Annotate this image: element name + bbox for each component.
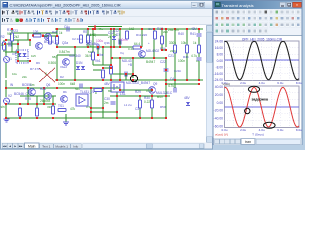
wire input series wire bbox=[5, 43, 18, 45]
capacitor C4 bbox=[197, 58, 202, 60]
svg-text:48V: 48V bbox=[191, 27, 198, 31]
wire top stub wire bbox=[88, 26, 122, 28]
wire lower col M bbox=[90, 88, 92, 118]
svg-text:R7 470: R7 470 bbox=[30, 67, 40, 71]
wire feedback lower wire bbox=[6, 103, 56, 105]
resistor R21 bbox=[110, 66, 113, 74]
resistor R17 bbox=[11, 33, 14, 41]
graph title text bbox=[242, 38, 283, 42]
annotation ellipse on peak bbox=[248, 86, 259, 92]
svg-text:8.00: 8.00 bbox=[217, 52, 224, 56]
svg-text:▶▶: ▶▶ bbox=[19, 145, 23, 148]
left toolbar row 1 bbox=[2, 10, 124, 14]
svg-text:(0.648): (0.648) bbox=[86, 33, 96, 37]
svg-text:◀◀: ◀◀ bbox=[3, 145, 7, 148]
wire bias res bottom bbox=[11, 41, 13, 52]
svg-text:1k5: 1k5 bbox=[31, 54, 36, 58]
svg-text:Models 1: Models 1 bbox=[55, 144, 68, 148]
wire col L seg2 bbox=[198, 37, 200, 45]
svg-text:V2: V2 bbox=[8, 94, 12, 98]
svg-text:MJL4302: MJL4302 bbox=[146, 49, 159, 53]
wire col L seg4 bbox=[198, 61, 200, 80]
wire col J upper bbox=[174, 29, 176, 45]
svg-text:▶: ▶ bbox=[14, 145, 16, 148]
right toolbar row 1 bbox=[215, 10, 301, 15]
capacitor C10 bbox=[9, 42, 11, 47]
wire col K upper bbox=[186, 29, 188, 45]
wire lower col P bbox=[151, 94, 153, 118]
svg-text:0.22: 0.22 bbox=[128, 47, 134, 51]
svg-text:C2 22u: C2 22u bbox=[72, 37, 82, 41]
ground GND2 bbox=[63, 122, 69, 125]
wire lower col R bbox=[139, 96, 141, 118]
bottom plot y axis labels bbox=[214, 85, 224, 129]
svg-text:+: + bbox=[148, 41, 150, 45]
svg-text:R11 220: R11 220 bbox=[136, 33, 147, 37]
svg-text:TS1: TS1 bbox=[58, 104, 64, 108]
right window close button bbox=[293, 2, 301, 7]
extra schematic labels 2 bbox=[12, 27, 200, 109]
left page tab bar bbox=[1, 143, 212, 149]
svg-text:234.0m: 234.0m bbox=[168, 28, 179, 32]
svg-text:Q3b: Q3b bbox=[104, 41, 110, 45]
svg-text:MJL4302_B4947: MJL4302_B4947 bbox=[126, 81, 150, 85]
svg-text:1k2: 1k2 bbox=[129, 27, 134, 31]
wire lower col N bbox=[102, 88, 104, 118]
resistor R7 bbox=[174, 45, 177, 53]
svg-text:16.00: 16.00 bbox=[215, 46, 223, 50]
svg-text:Vb1: Vb1 bbox=[95, 59, 101, 63]
svg-text:2.0u: 2.0u bbox=[240, 128, 246, 132]
svg-text:126: 126 bbox=[33, 30, 39, 34]
resistor R19 bbox=[87, 35, 90, 43]
wire stub drop bbox=[94, 27, 96, 30]
wire sense wire bbox=[162, 49, 166, 51]
svg-text:T (Secs): T (Secs) bbox=[252, 133, 264, 137]
transistor Q8 bbox=[149, 87, 156, 94]
right toolbar row 2 bbox=[215, 16, 301, 21]
wire col C bbox=[92, 29, 94, 65]
wire feedback tap bbox=[17, 40, 19, 52]
right page tab bar bbox=[214, 138, 302, 145]
svg-text:26k6x8: 26k6x8 bbox=[40, 99, 51, 103]
wire lower col O bbox=[116, 92, 118, 118]
right toolbar row 3 bbox=[215, 22, 301, 27]
wire col F lower bbox=[119, 58, 121, 80]
svg-text:BC546_C: BC546_C bbox=[14, 92, 29, 96]
resistor R9 bbox=[198, 45, 201, 53]
capacitor C7 bbox=[111, 102, 116, 104]
svg-text:0.5: 0.5 bbox=[86, 105, 91, 109]
resistor R20 bbox=[139, 100, 142, 108]
top plot y axis labels bbox=[214, 40, 224, 83]
wire lower stage wire bbox=[6, 87, 120, 89]
desktop background bbox=[0, 0, 305, 150]
capacitor C8 bbox=[97, 45, 99, 50]
wire col L seg3 bbox=[198, 53, 200, 57]
svg-text:20.00: 20.00 bbox=[215, 93, 223, 97]
wire zener col bbox=[113, 29, 115, 47]
wire edge col bbox=[3, 40, 5, 52]
svg-text:330: 330 bbox=[47, 105, 52, 109]
resistor R18 bbox=[3, 42, 6, 50]
svg-text:-8.00: -8.00 bbox=[215, 65, 223, 69]
svg-text:1n: 1n bbox=[196, 59, 200, 63]
svg-text:BC546_C: BC546_C bbox=[44, 40, 59, 44]
wire source top lead bbox=[5, 45, 7, 56]
resistor R31 bbox=[49, 36, 52, 44]
wire lower col Q5 bbox=[27, 88, 29, 104]
annotation circle on crossing bbox=[245, 108, 250, 113]
extra junction dots bbox=[11, 26, 167, 120]
right window maximize button bbox=[286, 2, 292, 7]
svg-text:Transient analysis: Transient analysis bbox=[222, 3, 254, 8]
svg-text:Vq: Vq bbox=[120, 51, 124, 55]
resistor R32 bbox=[161, 36, 164, 44]
transistor Q6 bbox=[45, 93, 52, 100]
voltage source V1 bbox=[4, 57, 10, 63]
svg-text:100n: 100n bbox=[58, 82, 65, 86]
svg-text:1k: 1k bbox=[193, 41, 197, 45]
svg-text:C31: C31 bbox=[135, 107, 141, 111]
svg-text:220p: 220p bbox=[170, 49, 177, 53]
svg-text:C14: C14 bbox=[148, 27, 154, 31]
resistor R3 bbox=[80, 35, 83, 43]
wire col C2 bbox=[87, 29, 89, 47]
wire input stage upper wire bbox=[28, 32, 57, 34]
wire sense col bbox=[161, 29, 163, 50]
wire col H bbox=[153, 29, 155, 58]
wire pair left leg bbox=[27, 33, 29, 40]
svg-text:2k2: 2k2 bbox=[14, 35, 19, 39]
wire lower col Q6 bbox=[43, 88, 45, 104]
wire ground bottom rail bbox=[6, 117, 166, 119]
wire mirror base wire bbox=[103, 67, 111, 69]
left window maximize button bbox=[199, 2, 205, 7]
toolbar/graph divider bbox=[214, 36, 302, 138]
wire col E bbox=[110, 29, 112, 81]
bottom plot footer labels bbox=[215, 133, 264, 137]
svg-text:Q9: Q9 bbox=[153, 82, 157, 86]
extra junction dots 2 bbox=[4, 28, 200, 109]
svg-text:330k: 330k bbox=[169, 41, 176, 45]
resistor R16 bbox=[92, 52, 95, 60]
wire load drop bbox=[49, 36, 51, 43]
wire cascode drop bbox=[97, 47, 99, 55]
capacitor C3 bbox=[197, 34, 202, 36]
wire col A upper bbox=[56, 29, 58, 47]
wire driver bias wire bbox=[112, 57, 165, 59]
bottom plot grid/box bbox=[225, 86, 300, 128]
left window title text bbox=[10, 3, 121, 7]
wire col G bbox=[141, 29, 143, 47]
right window: Transient analysis frame bbox=[213, 1, 302, 145]
svg-text:C3: C3 bbox=[12, 52, 16, 56]
svg-text:Main: Main bbox=[28, 144, 35, 148]
left window app icon bbox=[3, 2, 8, 7]
toolbar/schematic divider bbox=[1, 23, 212, 25]
bottom plot zero line bbox=[225, 106, 300, 108]
left window vertical scrollbar bbox=[206, 25, 213, 143]
svg-text:1k: 1k bbox=[59, 31, 63, 35]
right toolbar row 4 bbox=[215, 29, 268, 34]
svg-text:R2: R2 bbox=[1, 35, 5, 39]
capacitor C11 bbox=[125, 72, 127, 77]
battery V3 bbox=[111, 82, 124, 92]
wire lower res leg C bbox=[52, 96, 54, 106]
svg-text:R26: R26 bbox=[40, 87, 46, 91]
wire col F upper bbox=[119, 29, 121, 47]
svg-text:2m: 2m bbox=[104, 101, 109, 105]
svg-text:C22: C22 bbox=[160, 60, 166, 64]
resistor R11 bbox=[36, 108, 39, 116]
wire load wire bbox=[43, 35, 57, 37]
extra schematic labels bbox=[1, 28, 197, 111]
wire vas mid bbox=[110, 58, 112, 65]
svg-text:6.0u: 6.0u bbox=[277, 128, 283, 132]
svg-text:0.00: 0.00 bbox=[217, 101, 224, 105]
wire input column lower bbox=[5, 105, 7, 118]
svg-text:R29: R29 bbox=[135, 90, 141, 94]
left window title bar bbox=[1, 1, 212, 9]
svg-text:1m: 1m bbox=[30, 83, 35, 87]
svg-text:R25: R25 bbox=[25, 97, 31, 101]
right window app icon bbox=[215, 2, 220, 7]
voltage source V2 bbox=[4, 98, 10, 104]
svg-text:B4947: B4947 bbox=[146, 60, 155, 64]
wire output net wire bbox=[110, 95, 170, 97]
svg-text:22k: 22k bbox=[22, 75, 27, 79]
svg-text:Q2a: Q2a bbox=[62, 41, 68, 45]
capacitor C5 bbox=[80, 84, 82, 89]
resistor R5 bbox=[133, 46, 141, 49]
resistor R12 bbox=[52, 106, 55, 114]
thermal-couple diode box D4/D5 bbox=[16, 50, 28, 63]
svg-text:100n: 100n bbox=[178, 59, 185, 63]
right window title text bbox=[222, 3, 254, 8]
wire input node wire bbox=[5, 39, 30, 41]
wire col K lower bbox=[186, 53, 188, 80]
left toolbar row 2 bbox=[1, 17, 212, 23]
svg-text:-20.00: -20.00 bbox=[214, 109, 224, 113]
shunt regulator U1 TL431 bbox=[76, 94, 88, 106]
wire +48V top supply rail bbox=[55, 28, 203, 30]
resistor R8 bbox=[186, 45, 189, 53]
svg-text:Vbe2: Vbe2 bbox=[60, 65, 67, 69]
wire fb drop bbox=[17, 52, 19, 61]
wire col D bbox=[102, 47, 104, 65]
resistor R4 bbox=[126, 31, 129, 39]
wire mid horizontal rail bbox=[55, 79, 203, 81]
svg-text:8.0u: 8.0u bbox=[296, 81, 302, 85]
resistor R1 bbox=[33, 34, 41, 37]
bottom plot label v(out) bbox=[223, 82, 231, 86]
wire lower res leg B bbox=[36, 96, 38, 108]
svg-text:задержка: задержка bbox=[252, 98, 270, 102]
svg-text:-40.00: -40.00 bbox=[214, 117, 224, 121]
wire vas link wire bbox=[111, 73, 133, 75]
wire col J lower bbox=[174, 53, 176, 88]
svg-text:LS1: LS1 bbox=[120, 92, 126, 96]
annotation ellipse on trough bbox=[264, 122, 276, 128]
wire vas drop2 bbox=[125, 74, 127, 80]
wire input column upper bbox=[5, 80, 7, 97]
wire col I mid bbox=[165, 58, 167, 80]
svg-text:Text 1: Text 1 bbox=[42, 144, 51, 148]
transistor Q3 bbox=[63, 59, 70, 66]
left window: Micro-Cap schematic editor frame bbox=[1, 1, 213, 150]
wire lower bias wire bbox=[20, 95, 56, 97]
transistor Q2 bbox=[45, 34, 52, 41]
svg-text:2n: 2n bbox=[108, 35, 112, 39]
svg-text:0.0u: 0.0u bbox=[221, 128, 227, 132]
wire mirror lower wire bbox=[93, 69, 103, 71]
svg-text:0.506: 0.506 bbox=[48, 61, 56, 65]
svg-text:R5: R5 bbox=[83, 30, 87, 34]
resistor R33 bbox=[94, 89, 102, 92]
ground GND1 bbox=[4, 119, 10, 122]
wire rail stub wire bbox=[166, 83, 199, 85]
svg-text:2n: 2n bbox=[113, 33, 117, 37]
svg-text:0.22: 0.22 bbox=[144, 100, 150, 104]
capacitor C2 bbox=[119, 40, 121, 45]
svg-text:R41: R41 bbox=[190, 32, 196, 36]
wire bias res top bbox=[11, 29, 13, 33]
schematic white canvas bbox=[1, 25, 206, 143]
svg-text:47k: 47k bbox=[70, 107, 76, 111]
wire vas stage wire bbox=[57, 54, 75, 56]
transistor Q4 bbox=[139, 51, 146, 58]
svg-text:4.7u: 4.7u bbox=[191, 54, 197, 58]
svg-text:510: 510 bbox=[88, 50, 93, 54]
wire col B bbox=[74, 47, 76, 81]
svg-text:R44: R44 bbox=[183, 55, 189, 59]
svg-text:R9: R9 bbox=[36, 61, 40, 65]
wire col I upper bbox=[165, 29, 167, 47]
resistor R2 bbox=[56, 36, 59, 44]
annotation text bbox=[252, 98, 270, 102]
left window minimize button bbox=[191, 2, 197, 7]
wire col A lower bbox=[56, 55, 58, 80]
svg-text:C:\MC8\DATA\Amps\OPF_HEI_2005\: C:\MC8\DATA\Amps\OPF_HEI_2005\OPF_HEI_20… bbox=[10, 3, 121, 7]
wire crossing pair (selected, red) bbox=[39, 68, 55, 82]
capacitor C9 bbox=[164, 69, 169, 71]
wire col I lower bbox=[165, 80, 167, 118]
svg-text:3k: 3k bbox=[1, 43, 5, 47]
diode D6 bbox=[112, 36, 116, 39]
svg-text:R4b: R4b bbox=[52, 30, 58, 34]
top plot waveform v(in) black sine bbox=[225, 42, 299, 80]
right window title bar bbox=[214, 1, 302, 9]
diode D2 bbox=[81, 66, 85, 69]
svg-text:Rb: Rb bbox=[63, 90, 67, 94]
svg-text:10u: 10u bbox=[12, 72, 17, 76]
svg-text:40.00: 40.00 bbox=[215, 85, 223, 89]
svg-text:v(out): v(out) bbox=[223, 82, 231, 86]
svg-text:C1: C1 bbox=[64, 25, 68, 29]
wire col L seg1 bbox=[198, 29, 200, 33]
svg-text:D2: D2 bbox=[60, 75, 64, 79]
diode D3 bbox=[186, 102, 190, 105]
wire cascode mid wire bbox=[57, 46, 141, 48]
wire pair emitter wire bbox=[18, 60, 30, 62]
svg-text:v(out) (V): v(out) (V) bbox=[215, 133, 228, 137]
svg-text:R40: R40 bbox=[178, 32, 184, 36]
resistor R13 bbox=[58, 109, 66, 112]
svg-text:0.00: 0.00 bbox=[217, 59, 224, 63]
capacitor C1 bbox=[67, 27, 69, 32]
svg-text:4.0u: 4.0u bbox=[259, 81, 265, 85]
svg-text:tran: tran bbox=[245, 140, 251, 144]
svg-text:◀: ◀ bbox=[9, 145, 11, 148]
wire left bias wire bbox=[12, 32, 28, 34]
resistor R6 bbox=[154, 31, 157, 39]
svg-text:D1N: D1N bbox=[76, 61, 83, 65]
svg-text:-16.00: -16.00 bbox=[214, 72, 224, 76]
diode D1 bbox=[76, 66, 80, 69]
svg-text:R23: R23 bbox=[12, 29, 18, 33]
svg-text:48V: 48V bbox=[184, 96, 191, 100]
svg-text:68p: 68p bbox=[52, 55, 57, 59]
svg-text:R17: R17 bbox=[157, 27, 163, 31]
svg-text:MJE340: MJE340 bbox=[69, 54, 81, 58]
wire pair base leg bbox=[29, 40, 31, 46]
wire lower res leg A bbox=[19, 108, 21, 118]
svg-text:TL431_LV: TL431_LV bbox=[80, 90, 95, 94]
svg-text:Info: Info bbox=[73, 144, 78, 148]
wire tl431 ground drop bbox=[65, 114, 67, 122]
transistor Q1 bbox=[36, 43, 43, 50]
wire speaker wire bbox=[91, 111, 117, 113]
svg-text:Q6: Q6 bbox=[46, 83, 50, 87]
resistor R10 bbox=[19, 108, 22, 116]
schematic component labels bbox=[10, 25, 198, 108]
svg-text:8.0u: 8.0u bbox=[296, 128, 302, 132]
svg-text:C21b: C21b bbox=[174, 69, 182, 73]
svg-text:B4V: B4V bbox=[157, 95, 164, 99]
transistor Q5 bbox=[29, 89, 36, 96]
transistor Q7 bbox=[61, 96, 68, 103]
wire driver emitter wire bbox=[120, 89, 152, 91]
svg-text:D7: D7 bbox=[116, 33, 120, 37]
capacitor C6 bbox=[174, 88, 176, 93]
bottom plot waveform v(out) red sine bbox=[225, 87, 299, 127]
svg-text:×: × bbox=[296, 3, 298, 7]
svg-text:L1 2u: L1 2u bbox=[124, 103, 132, 107]
top plot zero line bbox=[225, 59, 300, 61]
svg-text:48V: 48V bbox=[104, 82, 111, 86]
wire cap row wire bbox=[88, 34, 108, 36]
wire output node drop bbox=[132, 58, 134, 78]
svg-text:6k8: 6k8 bbox=[70, 82, 75, 86]
top plot x axis labels bbox=[221, 81, 302, 85]
svg-text:64.4: 64.4 bbox=[134, 42, 140, 46]
wire mirror wire bbox=[93, 64, 111, 66]
svg-text:4.7u: 4.7u bbox=[168, 84, 174, 88]
svg-text:24.00: 24.00 bbox=[215, 40, 223, 44]
svg-text:2N5486s: 2N5486s bbox=[86, 42, 99, 46]
svg-text:+B: +B bbox=[128, 63, 132, 67]
node OUT marker (black circle annotation) bbox=[130, 75, 137, 81]
svg-text:10k: 10k bbox=[181, 41, 187, 45]
svg-text:4.0u: 4.0u bbox=[259, 128, 265, 132]
wire source bottom lead bbox=[5, 63, 7, 78]
svg-text:MJL43: MJL43 bbox=[122, 59, 132, 63]
top plot grid/box bbox=[225, 41, 300, 81]
wire zobel wire bbox=[91, 107, 103, 109]
svg-text:R50: R50 bbox=[160, 105, 166, 109]
svg-text:2.0u: 2.0u bbox=[240, 81, 246, 85]
